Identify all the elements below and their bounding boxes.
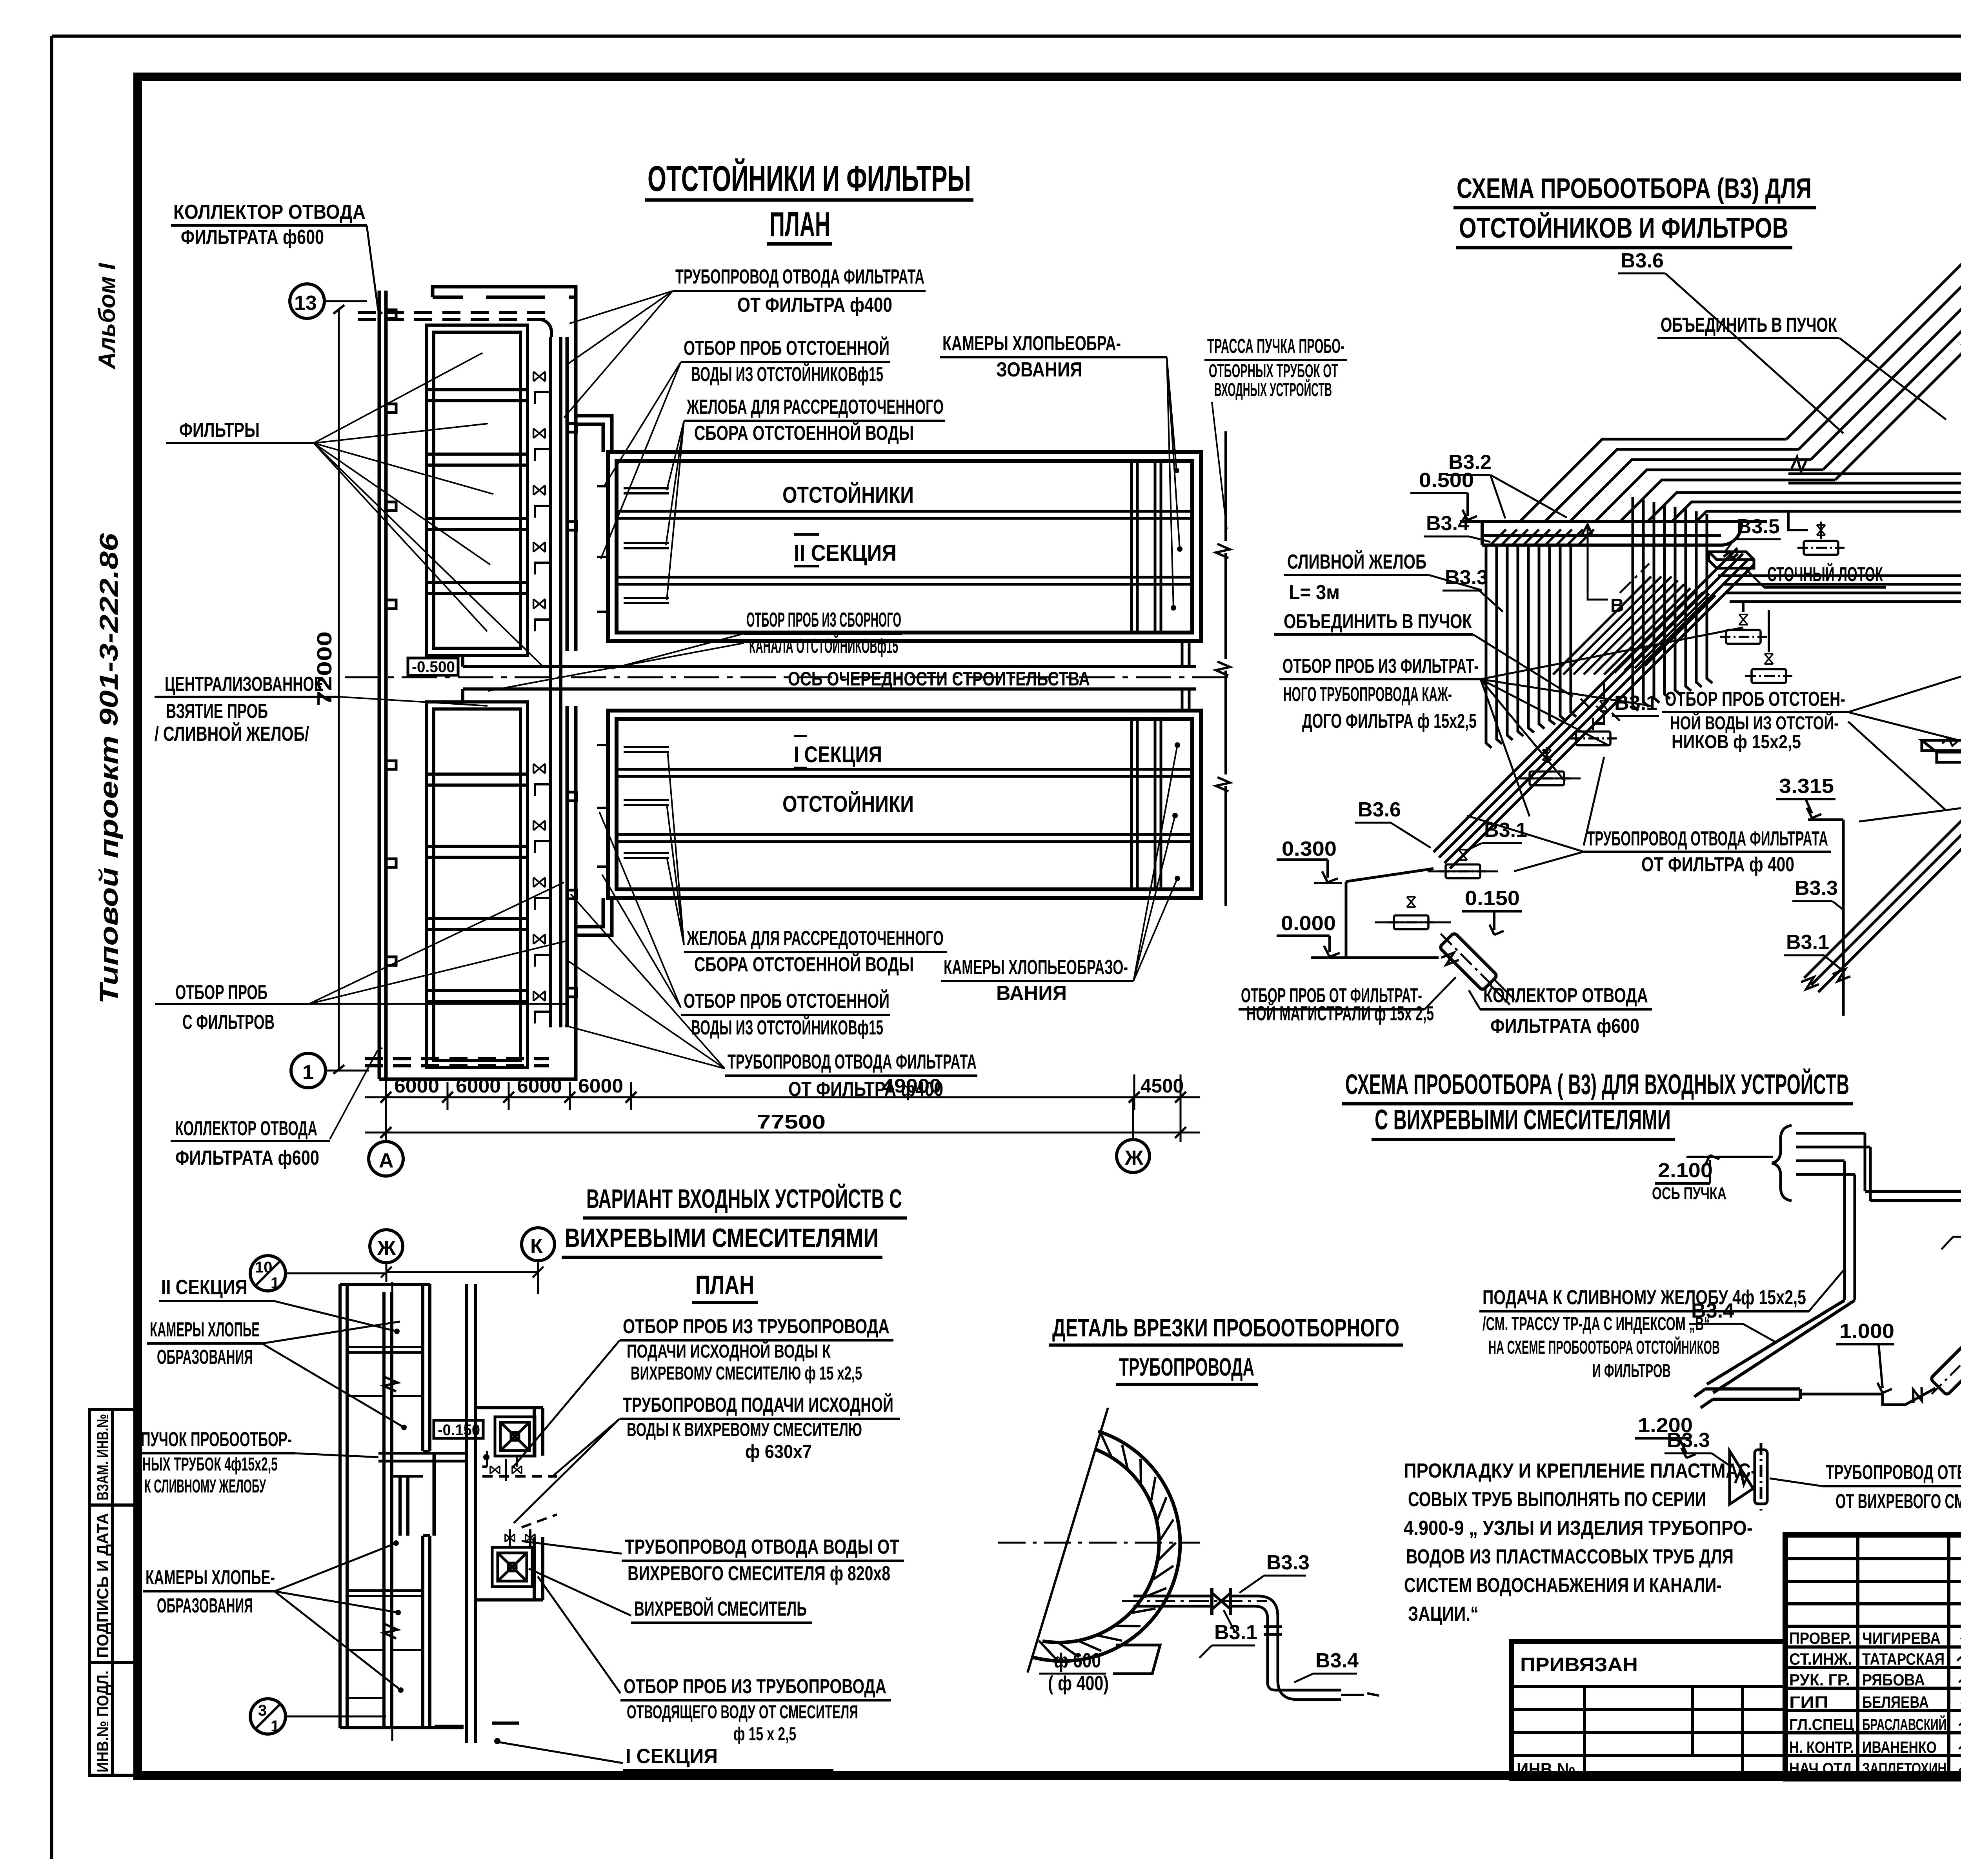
svg-text:Ж: Ж (377, 1237, 396, 1260)
svg-text:В3.3: В3.3 (1445, 566, 1488, 589)
svg-text:/ СЛИВНОЙ ЖЕЛОБ/: / СЛИВНОЙ ЖЕЛОБ/ (155, 722, 309, 745)
wall D (mixer bay) (475, 1408, 543, 1600)
outlet stub (1113, 1645, 1160, 1674)
svg-text:В3.3: В3.3 (1795, 877, 1838, 900)
svg-text:НА СХЕМЕ ПРОБООТБОРА ОТСТОЙН: НА СХЕМЕ ПРОБООТБОРА ОТСТОЙНИКОВ (1488, 1336, 1720, 1358)
svg-text:ТРУБОПРОВОД ОТВОДА ФИЛЬТРАТА: ТРУБОПРОВОД ОТВОДА ФИЛЬТРАТА (1587, 827, 1828, 850)
big collector cylinder (1433, 926, 1504, 997)
title block outline (1785, 1535, 1961, 1779)
trench boundary line right (1224, 431, 1227, 906)
svg-text:3: 3 (258, 1702, 267, 1719)
svg-text:13: 13 (294, 292, 317, 314)
svg-text:ОТБОР ПРОБ ИЗ СБОРНОГО: ОТБОР ПРОБ ИЗ СБОРНОГО (746, 609, 901, 631)
svg-text:КАМЕРЫ ХЛОПЬЕОБРА-: КАМЕРЫ ХЛОПЬЕОБРА- (942, 332, 1121, 355)
svg-text:ЗАПЛЕТОХИН: ЗАПЛЕТОХИН (1862, 1759, 1946, 1778)
top tank internal horizontals (617, 511, 1192, 584)
bottom tank left sampling stubs (597, 745, 608, 867)
top dashed collector pipe ф600 (358, 313, 549, 320)
break jog on band start (1792, 457, 1806, 472)
svg-text:2.100: 2.100 (1658, 1159, 1713, 1182)
dimension chain line 1 (365, 1074, 1200, 1110)
svg-text:В3.4: В3.4 (1315, 1649, 1359, 1672)
dim ticks (380, 1092, 1186, 1103)
svg-text:0.300: 0.300 (1282, 838, 1337, 860)
drain box сточный лоток (1709, 552, 1754, 568)
svg-text:ВАРИАНТ ВХОДНЫХ УСТРОЙСТВ: ВАРИАНТ ВХОДНЫХ УСТРОЙСТВ С (586, 1183, 902, 1214)
D2 diagonal (3 tubes) to lower left (1804, 342, 1961, 992)
D3 tail to 0.000 (1311, 869, 1439, 958)
title block verticals left part (1858, 1535, 1961, 1779)
svg-text:ОТВОДЯЩЕГО ВОДУ ОТ СМЕСИТЕЛЯ: ОТВОДЯЩЕГО ВОДУ ОТ СМЕСИТЕЛЯ (627, 1702, 858, 1723)
svg-text:ДЕТАЛЬ ВРЕЗКИ ПРОБООТБОРН: ДЕТАЛЬ ВРЕЗКИ ПРОБООТБОРНОГО (1052, 1314, 1399, 1342)
names column (1862, 1629, 1946, 1778)
signatures squiggles (1957, 1630, 1961, 1775)
svg-text:ФИЛЬТРАТА ф600: ФИЛЬТРАТА ф600 (1490, 1015, 1639, 1038)
svg-text:ТРУБОПРОВОД ОТВОДА ВОДЫ ОТ: ТРУБОПРОВОД ОТВОДА ВОДЫ ОТ (625, 1536, 899, 1558)
svg-text:В3.2: В3.2 (1448, 451, 1492, 474)
svg-text:ГИП: ГИП (1789, 1693, 1828, 1711)
svg-text:ЦЕНТРАЛИЗОВАННОЕ: ЦЕНТРАЛИЗОВАННОЕ (165, 673, 324, 696)
svg-text:ПОДАЧА К СЛИВНОМУ ЖЕЛОБУ 4ф 15: ПОДАЧА К СЛИВНОМУ ЖЕЛОБУ 4ф 15х2,5 (1483, 1286, 1806, 1309)
svg-text:6000: 6000 (456, 1075, 501, 1097)
svg-text:ПРИВЯЗАН: ПРИВЯЗАН (1520, 1654, 1638, 1676)
central corridor walls (463, 655, 1196, 701)
svg-text:77500: 77500 (757, 1111, 826, 1133)
svg-text:ФИЛЬТРАТА ф600: ФИЛЬТРАТА ф600 (175, 1147, 319, 1169)
svg-text:ТАТАРСКАЯ: ТАТАРСКАЯ (1862, 1650, 1945, 1668)
svg-text:СТ.ИНЖ.: СТ.ИНЖ. (1789, 1650, 1852, 1668)
svg-text:ФИЛЬТРАТА ф600: ФИЛЬТРАТА ф600 (181, 226, 324, 249)
left boundary wall (340, 1284, 464, 1728)
svg-text:КОЛЛЕКТОР ОТВОДА: КОЛЛЕКТОР ОТВОДА (1483, 984, 1648, 1007)
wall B lower (423, 1536, 430, 1728)
svg-text:ДОГО ФИЛЬТРА ф 15х2,5: ДОГО ФИЛЬТРА ф 15х2,5 (1302, 710, 1477, 733)
svg-text:I СЕКЦИЯ: I СЕКЦИЯ (626, 1745, 718, 1768)
svg-text:К СЛИВНОМУ ЖЕЛОБУ: К СЛИВНОМУ ЖЕЛОБУ (144, 1476, 266, 1497)
svg-text:II СЕКЦИЯ: II СЕКЦИЯ (794, 540, 897, 566)
flanges on drop (1264, 1627, 1282, 1634)
svg-text:РУК. ГР.: РУК. ГР. (1789, 1671, 1850, 1689)
svg-text:Н. КОНТР.: Н. КОНТР. (1789, 1738, 1854, 1756)
grid circle 1 (291, 1053, 326, 1088)
svg-text:1: 1 (271, 1274, 279, 1292)
svg-text:ТРУБОПРОВОД ОТВОДА ФИЛЬТРАТА: ТРУБОПРОВОД ОТВОДА ФИЛЬТРАТА (675, 265, 924, 288)
svg-text:ОТБОР ПРОБ ОТСТОЕН-: ОТБОР ПРОБ ОТСТОЕН- (1665, 688, 1845, 711)
svg-text:ВОДЫ К ВИХРЕВОМУ СМЕСИТЕЛЮ: ВОДЫ К ВИХРЕВОМУ СМЕСИТЕЛЮ (627, 1420, 862, 1440)
big diagonal cylinder ф600 (1923, 1319, 1961, 1402)
axis lines from circles (381, 1261, 544, 1294)
svg-text:ТРУБОПРОВОДА: ТРУБОПРОВОДА (1119, 1353, 1254, 1381)
svg-text:0.000: 0.000 (1281, 912, 1336, 935)
svg-text:6000: 6000 (394, 1075, 439, 1097)
mixer square 2 (492, 1547, 532, 1587)
trough rounded right end (1721, 522, 1741, 545)
svg-text:10: 10 (255, 1259, 273, 1276)
ticks on D3 (1581, 699, 1620, 721)
svg-text:ОТ ВИХРЕВОГО СМЕСИТЕЛЯ ф 800: ОТ ВИХРЕВОГО СМЕСИТЕЛЯ ф 800 (1835, 1490, 1961, 1513)
svg-text:В3.3: В3.3 (1667, 1429, 1710, 1452)
dim numbers row 1 (394, 1075, 1184, 1097)
svg-text:ИНВ.№: ИНВ.№ (1517, 1759, 1575, 1780)
svg-text:С ФИЛЬТРОВ: С ФИЛЬТРОВ (182, 1011, 275, 1034)
svg-text:СОВЫХ ТРУБ ВЫПОЛНЯТЬ ПО СЕ: СОВЫХ ТРУБ ВЫПОЛНЯТЬ ПО СЕРИИ (1408, 1488, 1706, 1511)
bundle pipes in plan (378, 1453, 467, 1461)
svg-text:КОЛЛЕКТОР ОТВОДА: КОЛЛЕКТОР ОТВОДА (173, 201, 366, 224)
svg-text:ЗАЦИИ.“: ЗАЦИИ.“ (1408, 1603, 1479, 1625)
svg-text:В: В (1610, 595, 1624, 616)
svg-text:ВОДОВ ИЗ ПЛАСТМАССОВЫХ ТРУБ: ВОДОВ ИЗ ПЛАСТМАССОВЫХ ТРУБ ДЛЯ (1406, 1545, 1734, 1568)
svg-text:СХЕМА ПРОБООТБОРА ( В3) ДЛЯ: СХЕМА ПРОБООТБОРА ( В3) ДЛЯ ВХОДНЫХ УСТР… (1345, 1068, 1849, 1100)
svg-text:НОГО ТРУБОПРОВОДА КАЖ-: НОГО ТРУБОПРОВОДА КАЖ- (1283, 683, 1452, 706)
svg-text:ОСЬ ПУЧКА: ОСЬ ПУЧКА (1652, 1184, 1726, 1203)
svg-text:В3.3: В3.3 (1266, 1551, 1310, 1574)
Ж axis vertical line (391, 1282, 393, 1741)
B continuation mark on comb (1588, 525, 1608, 600)
axis dash-dot line (345, 676, 1232, 678)
svg-text:ОБЪЕДИНИТЬ В ПУЧОК: ОБЪЕДИНИТЬ В ПУЧОК (1661, 314, 1837, 336)
svg-text:ГЛ.СПЕЦ: ГЛ.СПЕЦ (1789, 1715, 1854, 1734)
sampling pipe (1133, 1596, 1210, 1606)
connecting wall to tanks (top) (576, 416, 612, 452)
svg-text:ВИХРЕВОМУ СМЕСИТЕЛЮ ф 15 х2,5: ВИХРЕВОМУ СМЕСИТЕЛЮ ф 15 х2,5 (631, 1363, 862, 1384)
pipe run right (1865, 1191, 1961, 1201)
roles column (1789, 1629, 1854, 1778)
svg-text:ТРУБОПРОВОД ОТВОДА ВОДЫ: ТРУБОПРОВОД ОТВОДА ВОДЫ (1826, 1461, 1961, 1484)
svg-text:ПЛАН: ПЛАН (695, 1270, 754, 1300)
svg-text:ЖЕЛОБА ДЛЯ РАССРЕДОТОЧЕННОГО: ЖЕЛОБА ДЛЯ РАССРЕДОТОЧЕННОГО (686, 927, 944, 950)
top settling tank (608, 452, 1201, 641)
В3.3 flag + vertical cylinder ф800 (1730, 1451, 1753, 1504)
svg-text:СБОРА ОТСТОЕННОЙ ВОДЫ: СБОРА ОТСТОЕННОЙ ВОДЫ (694, 422, 914, 445)
svg-text:КАНАЛА ОТСТОЙНИКОВф15: КАНАЛА ОТСТОЙНИКОВф15 (749, 634, 898, 658)
svg-text:Альбом I: Альбом I (94, 263, 120, 370)
grid circle А (369, 1142, 403, 1176)
svg-text:НИКОВ ф 15х2,5: НИКОВ ф 15х2,5 (1672, 732, 1801, 753)
svg-text:ВИХРЕВОГО СМЕСИТЕЛЯ ф 820х8: ВИХРЕВОГО СМЕСИТЕЛЯ ф 820х8 (628, 1562, 890, 1585)
svg-text:( ф 400): ( ф 400) (1048, 1672, 1109, 1695)
sampling dots (483, 1454, 489, 1460)
svg-text:СТОЧНЫЙ ЛОТОК: СТОЧНЫЙ ЛОТОК (1767, 563, 1883, 586)
svg-text:В3.6: В3.6 (1358, 798, 1401, 821)
svg-text:НЫХ ТРУБОК 4ф15х2,5: НЫХ ТРУБОК 4ф15х2,5 (142, 1454, 278, 1475)
svg-text:/СМ. ТРАССУ ТР-ДА С ИНДЕКСОМ „: /СМ. ТРАССУ ТР-ДА С ИНДЕКСОМ „В“ (1483, 1314, 1710, 1334)
svg-text:-0.150: -0.150 (438, 1422, 480, 1439)
svg-text:ОТ ФИЛЬТРА ф400: ОТ ФИЛЬТРА ф400 (737, 294, 892, 316)
cylinders chain along D3 (1592, 718, 1594, 730)
bottom tank gutters (624, 747, 669, 858)
svg-text:4500: 4500 (1141, 1075, 1184, 1097)
svg-text:0.150: 0.150 (1465, 887, 1520, 910)
H1 horizontal bundle (5 tubes) (1788, 474, 1961, 511)
right wall tabs (567, 424, 577, 997)
svg-text:ОТБОР ПРОБ: ОТБОР ПРОБ (175, 981, 267, 1004)
svg-text:ПРОКЛАДКУ И КРЕПЛЕНИЕ ПЛАСТ: ПРОКЛАДКУ И КРЕПЛЕНИЕ ПЛАСТМАС- (1404, 1460, 1757, 1482)
svg-text:ВХОДНЫХ УСТРОЙСТВ: ВХОДНЫХ УСТРОЙСТВ (1214, 379, 1332, 400)
big pipe cross-section arcs (1031, 1431, 1180, 1661)
svg-text:ВОДЫ ИЗ ОТСТОЙНИКОВф15: ВОДЫ ИЗ ОТСТОЙНИКОВф15 (691, 363, 883, 386)
horizontal run lower (1694, 1389, 1800, 1408)
svg-text:СЛИВНОЙ ЖЕЛОБ: СЛИВНОЙ ЖЕЛОБ (1287, 550, 1426, 573)
corridor connector (400, 1476, 408, 1536)
top tank gutters (желоба) (624, 488, 669, 603)
wall C (467, 1284, 475, 1743)
svg-text:ОТСТОЙНИКИ: ОТСТОЙНИКИ (782, 791, 914, 817)
svg-text:1.000: 1.000 (1839, 1320, 1894, 1343)
svg-text:КАМЕРЫ ХЛОПЬЕ: КАМЕРЫ ХЛОПЬЕ (150, 1318, 260, 1341)
svg-text:ОБРАЗОВАНИЯ: ОБРАЗОВАНИЯ (157, 1346, 253, 1369)
svg-text:1: 1 (302, 1061, 314, 1084)
svg-text:L= 3м: L= 3м (1289, 581, 1340, 604)
svg-text:ВИХРЕВОЙ СМЕСИТЕЛЬ: ВИХРЕВОЙ СМЕСИТЕЛЬ (634, 1597, 807, 1620)
section circle 3/1 (250, 1699, 286, 1734)
svg-text:ВЗАМ. ИНВ.№: ВЗАМ. ИНВ.№ (93, 1414, 112, 1500)
svg-text:НОЙ ВОДЫ ИЗ ОТСТОЙ-: НОЙ ВОДЫ ИЗ ОТСТОЙ- (1670, 712, 1839, 734)
svg-text:ОТБОРНЫХ ТРУБОК ОТ: ОТБОРНЫХ ТРУБОК ОТ (1209, 361, 1338, 382)
hatch in rim (1039, 1434, 1176, 1659)
svg-text:В3.4: В3.4 (1426, 512, 1469, 535)
comb 45° hatch in trough (1490, 529, 1594, 545)
top tank right-end cell dividers (1131, 461, 1161, 633)
pipe after valve, elbow down (1231, 1596, 1341, 1700)
svg-text:6000: 6000 (517, 1075, 562, 1097)
hook end tip (1341, 1693, 1379, 1696)
filter outlet pipe column (vertical pipe) (551, 337, 561, 1027)
svg-text:Ж: Ж (1124, 1147, 1144, 1169)
svg-text:I СЕКЦИЯ: I СЕКЦИЯ (794, 742, 882, 767)
svg-text:НОЙ МАГИСТРАЛИ ф 15х 2,5: НОЙ МАГИСТРАЛИ ф 15х 2,5 (1246, 1002, 1434, 1025)
svg-text:ПОДПИСЬ И ДАТА: ПОДПИСЬ И ДАТА (93, 1513, 112, 1658)
left stamp box (89, 1409, 138, 1775)
svg-text:ЗОВАНИЯ: ЗОВАНИЯ (996, 358, 1082, 381)
svg-text:ВОДЫ ИЗ ОТСТОЙНИКОВф15: ВОДЫ ИЗ ОТСТОЙНИКОВф15 (691, 1016, 883, 1039)
svg-text:4.900-9 „ УЗЛЫ И ИЗДЕЛИЯ ТР: 4.900-9 „ УЗЛЫ И ИЗДЕЛИЯ ТРУБОПРО- (1404, 1517, 1753, 1540)
bundle 4 lines from brace (1796, 1133, 1870, 1174)
H2 lower bundle (4 tubes) (1718, 562, 1961, 602)
svg-text:ф 630х7: ф 630х7 (745, 1442, 812, 1462)
svg-text:В3.5: В3.5 (1737, 515, 1780, 538)
svg-text:ТРУБОПРОВОД ПОДАЧИ ИСХОДНОЙ: ТРУБОПРОВОД ПОДАЧИ ИСХОДНОЙ (623, 1393, 893, 1416)
grid circle Ж (370, 1230, 403, 1263)
bottom settling tank (608, 711, 1201, 898)
lower chamber internal lines (347, 1591, 423, 1698)
svg-text:ОБРАЗОВАНИЯ: ОБРАЗОВАНИЯ (157, 1594, 253, 1617)
svg-text:НАЧ.ОТД: НАЧ.ОТД (1789, 1759, 1852, 1778)
comb: сливной желоб trough (1460, 522, 1767, 545)
svg-text:КОЛЛЕКТОР ОТВОДА: КОЛЛЕКТОР ОТВОДА (175, 1117, 317, 1140)
svg-text:РЯБОВА: РЯБОВА (1862, 1671, 1925, 1689)
wall B upper (423, 1284, 430, 1451)
svg-text:БРАСЛАВСКИЙ: БРАСЛАВСКИЙ (1862, 1715, 1946, 1734)
dimension chain line 2 (365, 1110, 1200, 1142)
svg-text:ВЗЯТИЕ ПРОБ: ВЗЯТИЕ ПРОБ (166, 700, 268, 723)
title block horizontals left part (1785, 1559, 1961, 1756)
svg-text:В3.1: В3.1 (1786, 931, 1829, 954)
chord line (1028, 1408, 1108, 1672)
bundle corners down to pipe (1845, 1133, 1870, 1300)
svg-text:ф 15 х 2,5: ф 15 х 2,5 (733, 1724, 796, 1745)
svg-text:СБОРА ОТСТОЕННОЙ ВОДЫ: СБОРА ОТСТОЕННОЙ ВОДЫ (694, 953, 914, 976)
svg-text:ОТБОР ПРОБ ОТСТОЕННОЙ: ОТБОР ПРОБ ОТСТОЕННОЙ (684, 336, 890, 360)
svg-text:ОБЪЕДИНИТЬ В ПУЧОК: ОБЪЕДИНИТЬ В ПУЧОК (1284, 610, 1472, 633)
small connection hooks on pipe column (535, 392, 551, 1023)
svg-text:В3.1: В3.1 (1614, 692, 1657, 714)
svg-text:СХЕМА ПРОБООТБОРА (В3) ДЛЯ: СХЕМА ПРОБООТБОРА (В3) ДЛЯ (1457, 173, 1812, 204)
svg-text:С ВИХРЕВЫМИ СМЕСИТЕЛЯМИ: С ВИХРЕВЫМИ СМЕСИТЕЛЯМИ (1375, 1104, 1671, 1136)
svg-text:ОТБОР ПРОБ ИЗ ТРУБОПРОВОДА: ОТБОР ПРОБ ИЗ ТРУБОПРОВОДА (623, 1315, 890, 1338)
valve assemblies between mixers (482, 1451, 487, 1467)
svg-text:ЖЕЛОБА ДЛЯ РАССРЕДОТОЧЕННОГО: ЖЕЛОБА ДЛЯ РАССРЕДОТОЧЕННОГО (686, 396, 944, 418)
svg-text:БЕЛЯЕВА: БЕЛЯЕВА (1862, 1693, 1929, 1711)
grid circle Ж right (1117, 1140, 1150, 1172)
svg-text:И ФИЛЬТРОВ: И ФИЛЬТРОВ (1592, 1361, 1671, 1382)
svg-text:II СЕКЦИЯ: II СЕКЦИЯ (161, 1276, 247, 1299)
flanges + valve (1212, 1588, 1231, 1615)
svg-text:ПОДАЧИ ИСХОДНОЙ ВОДЫ К: ПОДАЧИ ИСХОДНОЙ ВОДЫ К (627, 1340, 831, 1362)
svg-text:К: К (530, 1235, 543, 1258)
svg-text:ОТБОР ПРОБ ИЗ ТРУБОПРОВОДА: ОТБОР ПРОБ ИЗ ТРУБОПРОВОДА (624, 1675, 886, 1698)
center dash line (998, 1542, 1200, 1544)
svg-text:СИСТЕМ ВОДОСНАБЖЕНИЯ И КАН: СИСТЕМ ВОДОСНАБЖЕНИЯ И КАНАЛИ- (1404, 1574, 1722, 1597)
svg-text:ф 600: ф 600 (1054, 1649, 1101, 1672)
bottom tank internal horizontals (617, 769, 1192, 842)
grid circle К (522, 1228, 555, 1261)
filter block top bracket wall (433, 287, 576, 337)
fan leaders to filter cells (314, 353, 543, 667)
svg-text:КАМЕРЫ ХЛОПЬЕ-: КАМЕРЫ ХЛОПЬЕ- (146, 1566, 275, 1589)
svg-text:ТРАССА ПУЧКА ПРОБО-: ТРАССА ПУЧКА ПРОБО- (1207, 335, 1344, 358)
D1 diagonal bundle (6 tubes) (1786, 142, 1961, 480)
svg-text:ОТ ФИЛЬТРА ф 400: ОТ ФИЛЬТРА ф 400 (1641, 853, 1794, 876)
svg-text:ФИЛЬТРЫ: ФИЛЬТРЫ (179, 419, 260, 442)
svg-text:ОТСТОЙНИКИ: ОТСТОЙНИКИ (782, 482, 914, 508)
comb teeth group 1 (1486, 545, 1576, 748)
bottom dashed collector pipe (365, 1059, 549, 1066)
leader (367, 225, 382, 314)
top tank left sampling stubs (597, 486, 608, 612)
svg-text:ПУЧОК ПРОБООТБОР-: ПУЧОК ПРОБООТБОР- (141, 1428, 292, 1451)
middle zone long diagonals (1553, 576, 1715, 674)
svg-text:-0.500: -0.500 (412, 658, 455, 676)
left wall tabs (386, 310, 396, 965)
wall A (Ж axis wall) (384, 1292, 392, 1728)
valve+cyl assembly near сточный лоток (1788, 510, 1821, 539)
svg-text:ПРОВЕР.: ПРОВЕР. (1789, 1629, 1852, 1647)
curly brace (1772, 1125, 1792, 1201)
-0.150 box (434, 1420, 483, 1438)
filter cells upper column (427, 325, 528, 655)
fan of tubes: D1 bends left into comb (1520, 439, 1835, 522)
left drop from brace (1707, 1300, 1855, 1393)
svg-text:ОТСТОЙНИКОВ И ФИЛЬТРОВ: ОТСТОЙНИКОВ И ФИЛЬТРОВ (1459, 212, 1788, 244)
ПРИВЯЗАН table (1512, 1641, 1785, 1780)
В3.3 vertical drop (1842, 820, 1845, 1016)
svg-text:1: 1 (271, 1718, 279, 1735)
svg-text:ОТСТОЙНИКИ И ФИЛЬТРЫ: ОТСТОЙНИКИ И ФИЛЬТРЫ (648, 158, 971, 199)
svg-text:ПЛАН: ПЛАН (769, 205, 830, 244)
svg-text:ОТБОР ПРОБ ИЗ ФИЛЬТРАТ-: ОТБОР ПРОБ ИЗ ФИЛЬТРАТ- (1282, 655, 1479, 678)
svg-text:49000: 49000 (882, 1075, 941, 1097)
-0.500 level box (408, 658, 458, 675)
svg-text:ВАНИЯ: ВАНИЯ (996, 982, 1067, 1005)
grid circle 13 (290, 284, 324, 318)
valves on filter outlets upper (533, 372, 545, 1001)
svg-text:ОСЬ ОЧЕРЕДНОСТИ СТРОИТЕЛЬС: ОСЬ ОЧЕРЕДНОСТИ СТРОИТЕЛЬСТВА (788, 668, 1090, 690)
filter block bottom wall (379, 1027, 576, 1079)
svg-text:6000: 6000 (578, 1075, 623, 1097)
svg-text:Типовой проект 901-3-222.86: Типовой проект 901-3-222.86 (94, 533, 123, 1004)
break marks on walls (384, 1377, 398, 1391)
section circle 10/1 (250, 1256, 286, 1291)
comb teeth group 2 (1633, 497, 1712, 711)
bottom tank right-end cell dividers (1131, 719, 1161, 889)
svg-text:В3.6: В3.6 (1621, 249, 1664, 272)
upper chamber internal lines (347, 1347, 423, 1396)
svg-text:ОТБОР ПРОБ ОТСТОЕННОЙ: ОТБОР ПРОБ ОТСТОЕННОЙ (684, 989, 890, 1013)
collector elbow top (541, 320, 551, 337)
svg-text:ВИХРЕВЫМИ СМЕСИТЕЛЯМИ: ВИХРЕВЫМИ СМЕСИТЕЛЯМИ (565, 1223, 879, 1253)
svg-text:А: А (379, 1149, 394, 1172)
svg-text:ЧИГИРЕВА: ЧИГИРЕВА (1862, 1629, 1941, 1647)
svg-text:В3.1: В3.1 (1214, 1621, 1257, 1644)
filter block right wall (567, 337, 576, 1027)
connecting wall to tanks (bottom) (576, 898, 612, 935)
svg-text:ТРУБОПРОВОД ОТВОДА ФИЛЬТРАТА: ТРУБОПРОВОД ОТВОДА ФИЛЬТРАТА (728, 1051, 977, 1073)
bottom wall caps (435, 1723, 519, 1726)
svg-text:КАМЕРЫ ХЛОПЬЕОБРАЗО-: КАМЕРЫ ХЛОПЬЕОБРАЗО- (944, 956, 1128, 979)
filter block left wall (379, 291, 386, 1079)
D3 diagonal bundle (4 tubes) lower left (1433, 548, 1754, 869)
svg-text:3.315: 3.315 (1779, 775, 1834, 798)
corridor stub pipes right (1182, 641, 1189, 711)
filter cells lower column (427, 702, 528, 1067)
cyl+valve pair on H2 right (1742, 602, 1745, 612)
svg-text:ИВАНЕНКО: ИВАНЕНКО (1862, 1738, 1937, 1756)
mixer square 1 (495, 1417, 535, 1456)
svg-text:ИНВ.№ ПОДЛ.: ИНВ.№ ПОДЛ. (93, 1671, 112, 1772)
